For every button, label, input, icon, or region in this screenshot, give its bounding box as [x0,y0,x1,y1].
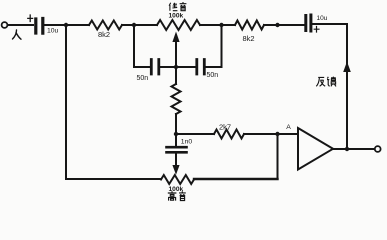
plus polarity mark of C1 [28,15,33,22]
capacitor C5 treble [175,134,177,146]
label RP2 treble chars gao-yin [168,191,186,200]
feedback direction arrow [343,62,351,73]
wire N2 down to C3 [134,25,151,67]
capacitor C1 [36,19,43,34]
svg-text:50n: 50n [137,75,149,82]
resistor R3 vertical [175,67,177,84]
svg-text:1n0: 1n0 [181,139,193,146]
wire C4 up to N3 [206,25,222,67]
label input char ru [13,30,22,39]
wire C3 to node N5 to C4 [160,66,195,68]
potentiometer RP2 treble track [161,175,194,184]
svg-text:100k: 100k [169,186,184,193]
label RP1 bass chars di-yin [169,2,186,11]
svg-text:10u: 10u [317,15,328,22]
bottom rail right [194,178,278,180]
bottom rail left [66,178,161,180]
capacitor C2 [306,15,311,31]
RP2 wiper arrow down [175,154,177,166]
resistor R4 2k7 [214,130,244,139]
wire input to C1 [8,24,33,26]
node N8 output feedback junction [345,147,349,151]
wire R1 to bass pot [122,24,157,26]
output terminal J2 [375,146,381,152]
capacitor C4 [197,60,205,75]
capacitor C3 [151,60,159,75]
wire R4 to op-amp input [244,133,298,135]
node N1 [64,23,68,27]
plus polarity mark of C2 [314,27,319,33]
svg-text:2k7: 2k7 [219,123,231,132]
op-amp output wire [333,148,375,150]
wire left column [65,25,67,179]
node N2 [132,23,136,27]
svg-text:A: A [286,124,291,131]
node N6 [174,132,178,136]
label feedback chars fan-kui [316,77,336,87]
wire C1 to node N1 [45,24,90,26]
svg-text:10u: 10u [47,28,59,35]
node N7 [275,132,279,136]
svg-text:8k2: 8k2 [243,34,255,43]
wire N7 down to bottom rail [277,134,279,179]
resistor R1 8k2 [89,21,122,30]
node N3 [219,23,223,27]
resistor R2 8k2 [235,21,264,30]
potentiometer RP1 bass track [157,20,200,30]
op-amp U1 [298,128,333,170]
node N4 [275,23,279,27]
wire C2 to feedback corner [313,24,348,149]
input terminal J1 [2,22,8,28]
RP1 wiper arrow [175,41,177,67]
svg-text:100k: 100k [169,13,184,20]
svg-text:50n: 50n [207,72,219,79]
wire R2 to C2 [264,24,304,26]
node N5 [174,65,178,69]
wire pot to R2 [200,24,235,26]
wire N6 to R4 [176,133,214,135]
svg-text:8k2: 8k2 [98,30,110,39]
